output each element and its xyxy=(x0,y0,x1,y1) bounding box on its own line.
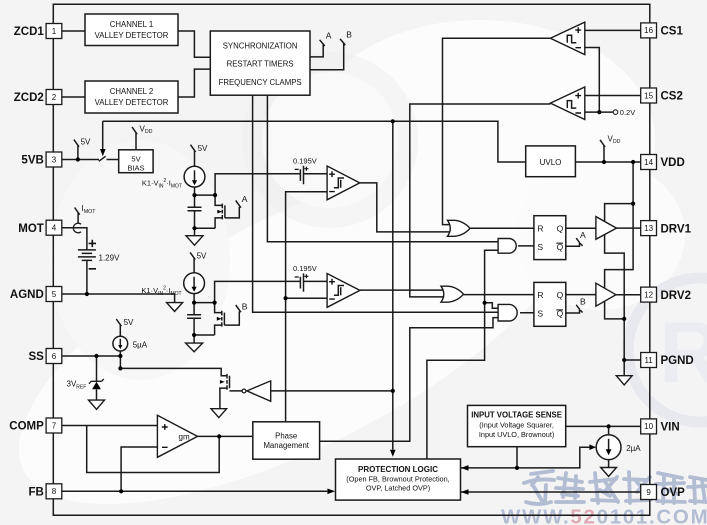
svg-text:10: 10 xyxy=(644,422,653,431)
svg-text:UVLO: UVLO xyxy=(540,158,562,167)
svg-text:CHANNEL 1: CHANNEL 1 xyxy=(110,20,153,29)
svg-text:3: 3 xyxy=(52,155,57,164)
svg-text:(Open FB, Brownout Protection,: (Open FB, Brownout Protection, xyxy=(346,475,449,484)
svg-text:6: 6 xyxy=(52,352,57,361)
svg-text:1: 1 xyxy=(52,27,57,36)
svg-text:0.195V: 0.195V xyxy=(293,264,317,273)
svg-text:S: S xyxy=(537,309,543,319)
svg-text:1.29V: 1.29V xyxy=(99,254,121,263)
svg-text:11: 11 xyxy=(644,356,653,365)
svg-text:5µA: 5µA xyxy=(133,340,148,349)
svg-text:ZCD2: ZCD2 xyxy=(14,92,44,104)
svg-text:4: 4 xyxy=(52,224,57,233)
svg-text:DRV2: DRV2 xyxy=(661,290,691,302)
svg-text:15: 15 xyxy=(644,91,653,100)
svg-text:12: 12 xyxy=(644,290,653,299)
svg-text:PGND: PGND xyxy=(661,355,694,367)
svg-text:B: B xyxy=(346,30,352,40)
svg-text:COMP: COMP xyxy=(9,421,44,433)
svg-text:0.2V: 0.2V xyxy=(620,108,635,117)
svg-text:5V: 5V xyxy=(197,251,207,260)
svg-text:5V: 5V xyxy=(81,138,91,147)
svg-text:2µA: 2µA xyxy=(626,444,641,453)
svg-text:5: 5 xyxy=(52,290,57,299)
svg-text:CS1: CS1 xyxy=(661,26,684,38)
svg-text:ZCD1: ZCD1 xyxy=(14,26,45,38)
svg-text:Phase: Phase xyxy=(275,432,297,441)
svg-text:5V: 5V xyxy=(131,154,140,163)
svg-text:(Input Voltage Squarer,: (Input Voltage Squarer, xyxy=(479,420,554,429)
svg-text:7: 7 xyxy=(52,421,57,430)
svg-text:RESTART TIMERS: RESTART TIMERS xyxy=(227,60,294,69)
svg-text:16: 16 xyxy=(644,26,653,35)
svg-text:5V: 5V xyxy=(124,318,134,327)
svg-text:gm: gm xyxy=(179,432,190,441)
svg-text:CS2: CS2 xyxy=(661,91,683,103)
svg-text:R: R xyxy=(537,290,543,300)
svg-text:CHANNEL 2: CHANNEL 2 xyxy=(110,87,153,96)
svg-text:R: R xyxy=(659,305,707,401)
svg-text:Q: Q xyxy=(557,290,564,300)
svg-text:INPUT VOLTAGE SENSE: INPUT VOLTAGE SENSE xyxy=(471,410,562,419)
svg-text:S: S xyxy=(537,242,543,252)
svg-text:FB: FB xyxy=(28,487,43,499)
svg-text:VALLEY DETECTOR: VALLEY DETECTOR xyxy=(95,98,169,107)
svg-text:VDD: VDD xyxy=(661,157,685,169)
svg-text:5VB: 5VB xyxy=(21,155,43,167)
svg-text:14: 14 xyxy=(644,158,653,167)
svg-text:Management: Management xyxy=(263,441,309,450)
svg-text:SYNCHRONIZATION: SYNCHRONIZATION xyxy=(223,42,298,51)
svg-text:R: R xyxy=(537,224,543,234)
svg-text:A: A xyxy=(326,30,332,40)
svg-text:DRV1: DRV1 xyxy=(661,223,692,235)
svg-text:9: 9 xyxy=(646,488,651,497)
svg-text:OVP: OVP xyxy=(661,487,686,499)
svg-text:VIN: VIN xyxy=(661,422,680,434)
svg-text:SS: SS xyxy=(28,351,44,363)
svg-text:OVP, Latched OVP): OVP, Latched OVP) xyxy=(366,484,430,493)
svg-text:BIAS: BIAS xyxy=(127,163,144,172)
svg-text:13: 13 xyxy=(644,224,653,233)
svg-text:VALLEY DETECTOR: VALLEY DETECTOR xyxy=(95,31,169,40)
svg-text:2: 2 xyxy=(52,93,57,102)
svg-text:0.195V: 0.195V xyxy=(293,156,317,165)
svg-text:MOT: MOT xyxy=(18,223,44,235)
svg-text:B: B xyxy=(580,297,586,307)
svg-text:B: B xyxy=(242,301,248,311)
svg-text:Input UVLO, Brownout): Input UVLO, Brownout) xyxy=(479,430,554,439)
svg-text:FREQUENCY CLAMPS: FREQUENCY CLAMPS xyxy=(219,78,302,87)
svg-text:AGND: AGND xyxy=(10,289,44,301)
svg-text:Q: Q xyxy=(557,224,564,234)
svg-text:PROTECTION LOGIC: PROTECTION LOGIC xyxy=(358,465,438,474)
svg-text:A: A xyxy=(242,194,248,204)
svg-text:5V: 5V xyxy=(198,144,208,153)
svg-text:A: A xyxy=(580,230,586,240)
svg-text:8: 8 xyxy=(52,487,57,496)
